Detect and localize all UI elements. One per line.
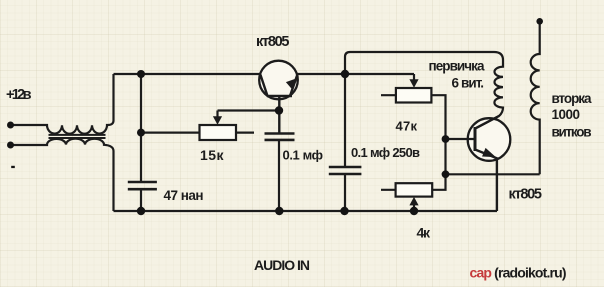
svg-text:6 вит.: 6 вит.: [452, 75, 485, 90]
svg-text:AUDIO IN: AUDIO IN: [254, 257, 310, 273]
svg-text:47 нан: 47 нан: [164, 188, 204, 203]
svg-text:первичка: первичка: [429, 58, 485, 73]
svg-text:витков: витков: [552, 125, 592, 140]
svg-text:0.1 мф: 0.1 мф: [283, 148, 324, 163]
svg-text:cap (radoikot.ru): cap (radoikot.ru): [470, 265, 567, 281]
svg-text:15к: 15к: [200, 147, 224, 163]
svg-text:кт805: кт805: [256, 34, 290, 50]
svg-text:вторка: вторка: [552, 91, 592, 106]
svg-text:+12в: +12в: [6, 87, 32, 103]
svg-text:0.1 мф 250в: 0.1 мф 250в: [351, 145, 420, 160]
svg-text:4к: 4к: [417, 225, 431, 241]
svg-text:кт805: кт805: [509, 187, 543, 203]
svg-text:1000: 1000: [552, 107, 581, 122]
svg-text:47к: 47к: [396, 119, 418, 134]
